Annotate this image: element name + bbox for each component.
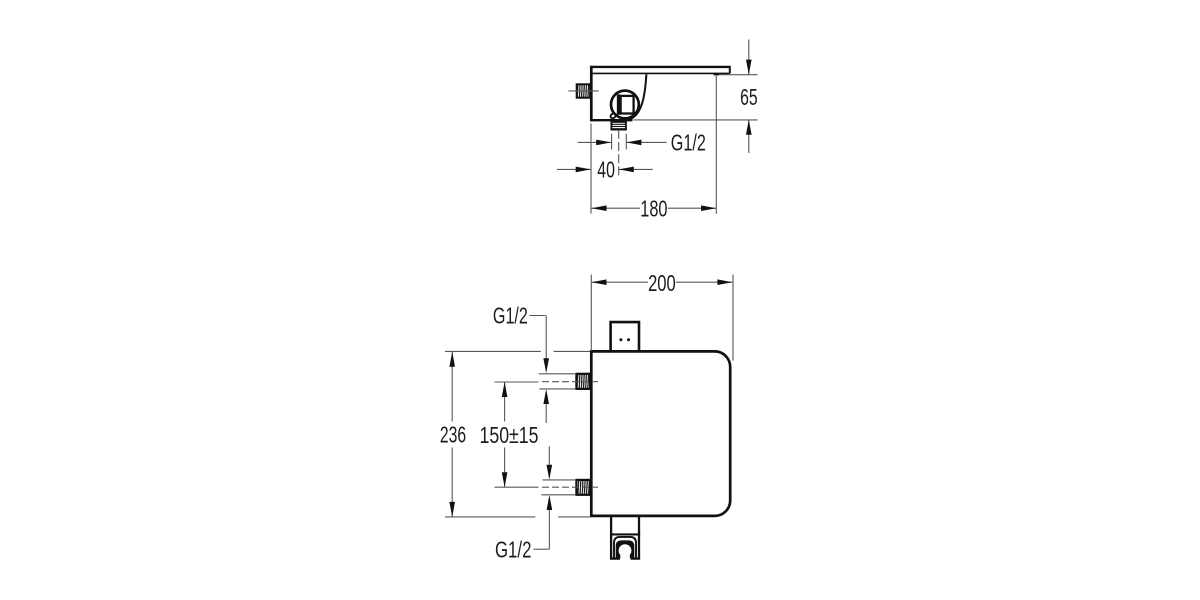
arrow G1/2 right (left) xyxy=(626,140,641,146)
arrow 150 top (up) xyxy=(502,382,508,397)
arrow 40 left (right) xyxy=(576,167,591,173)
svg-text:180: 180 xyxy=(640,196,667,222)
inlet connector left (hatched) xyxy=(577,84,590,97)
connector centerline xyxy=(569,90,599,92)
svg-text:40: 40 xyxy=(597,157,615,183)
arrow 65 bottom (up) xyxy=(746,120,752,135)
arrow 236 bottom (down) xyxy=(449,502,455,517)
dim 150 vline xyxy=(504,382,506,421)
handle circle xyxy=(611,91,639,119)
svg-text:65: 65 xyxy=(740,84,758,110)
G1/2 top leader xyxy=(529,315,545,317)
clip bottom opening xyxy=(620,554,630,559)
bracket right edge xyxy=(638,517,640,560)
handle loop xyxy=(610,112,617,119)
spout plate right edge xyxy=(729,66,731,74)
G1/2 ext ticks xyxy=(611,134,613,150)
arrow G1/2 left (right) xyxy=(596,140,611,146)
arrow 200 right (right) xyxy=(717,279,732,285)
upper connector ext lines xyxy=(539,373,577,375)
arrow 236 top (up) xyxy=(449,352,455,367)
ext line at spout lip level xyxy=(714,74,758,76)
236 bottom ext xyxy=(445,516,535,518)
body left edge xyxy=(590,66,593,122)
dim 65 vertical line xyxy=(748,40,750,75)
dim 200 line xyxy=(592,281,649,283)
bracket rung xyxy=(610,533,640,535)
spout plate bottom line xyxy=(591,72,729,74)
dim 40 line xyxy=(557,168,591,170)
dim 180 line xyxy=(591,207,640,209)
ext line at body bottom level xyxy=(634,119,758,121)
arrow 40 right (left) xyxy=(619,167,634,173)
body right profile curve xyxy=(630,74,647,119)
236 top ext xyxy=(445,350,541,352)
box body xyxy=(591,351,730,516)
svg-text:G1/2: G1/2 xyxy=(493,302,528,328)
handle bar xyxy=(617,94,621,114)
right ext line x716 xyxy=(715,76,717,214)
left ext line x591 xyxy=(590,124,592,214)
lower connector ext lines xyxy=(543,479,577,481)
arrow 65 top (down) xyxy=(746,60,752,75)
shower clip thick shape xyxy=(616,540,635,558)
outlet nub xyxy=(611,122,626,129)
upper centerline dashed xyxy=(542,381,598,383)
arrow upper conn bottom (up) xyxy=(543,389,549,404)
bracket left edge xyxy=(610,517,612,560)
arrow 200 left (left) xyxy=(592,279,607,285)
150 ext lines xyxy=(495,381,539,383)
lower inlet connector (hatched) xyxy=(576,480,590,495)
arrow 180 right (right) xyxy=(701,205,716,211)
svg-text:G1/2: G1/2 xyxy=(495,537,532,563)
arrow G1/2 bottom leader (up) xyxy=(547,495,553,510)
dim G1/2 line xyxy=(578,141,612,143)
G1/2 bottom leader xyxy=(534,548,550,550)
svg-text:200: 200 xyxy=(648,270,676,296)
bracket inner outline xyxy=(614,537,636,559)
handle square xyxy=(621,96,634,114)
lower centerline dashed xyxy=(542,486,598,488)
svg-text:236: 236 xyxy=(440,422,466,448)
200 right ext xyxy=(732,275,734,361)
bracket bottom feet lines xyxy=(610,557,620,559)
nub dashed centerline xyxy=(618,130,620,178)
arrow lower conn top (down) xyxy=(547,465,553,480)
top port xyxy=(611,322,639,351)
port dots xyxy=(619,338,622,341)
arrow 150 bottom (down) xyxy=(502,472,508,487)
dim 236 vline xyxy=(451,352,453,422)
200 left ext xyxy=(590,275,592,352)
svg-text:150±15: 150±15 xyxy=(480,422,539,448)
body bottom edge xyxy=(590,119,633,121)
arrow G1/2 top leader (down) xyxy=(543,358,549,373)
spout outlet lip xyxy=(714,73,719,75)
upper inlet connector (hatched) xyxy=(576,374,590,389)
svg-text:G1/2: G1/2 xyxy=(671,129,706,155)
arrow 180 left (left) xyxy=(592,205,607,211)
spout plate top line xyxy=(591,66,729,68)
